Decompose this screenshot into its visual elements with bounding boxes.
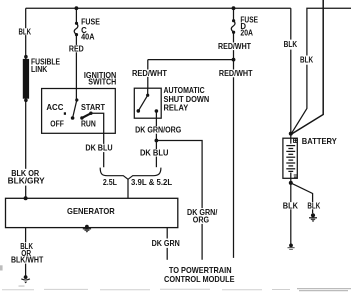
ignition switch box <box>42 89 116 134</box>
relay top stub tip <box>146 94 149 97</box>
wire brace to generator <box>127 179 129 198</box>
svg-text:BLK: BLK <box>300 56 313 65</box>
fuse D terminals <box>232 19 235 22</box>
svg-text:LINK: LINK <box>31 65 48 74</box>
svg-text:DK GRN/ORG: DK GRN/ORG <box>135 126 181 135</box>
node generator input <box>24 196 28 200</box>
ignition lever pivot <box>71 116 75 120</box>
brace 2.5L / 3.9L & 5.2L <box>100 168 161 180</box>
node fuse C tap <box>75 6 79 10</box>
fusible link body <box>23 59 29 99</box>
svg-text:BLK: BLK <box>18 27 31 36</box>
svg-text:AUTOMATIC: AUTOMATIC <box>164 86 205 95</box>
ground at generator lead bottom left <box>21 275 30 283</box>
wire relay output DK GRN/ORG <box>155 111 157 141</box>
node fuse D tap <box>232 6 236 10</box>
node DK GRN/ORG junction <box>155 139 159 143</box>
svg-text:RED/WHT: RED/WHT <box>132 69 167 78</box>
wire RUN output (DK BLU left) <box>91 113 104 167</box>
wire RUN contact stub <box>82 113 91 118</box>
wire junction DK BLU right <box>155 141 157 168</box>
svg-text:BLK: BLK <box>283 201 299 210</box>
svg-text:BLK: BLK <box>284 40 298 49</box>
fuse C terminals <box>75 22 78 25</box>
svg-text:BLK/WHT: BLK/WHT <box>11 255 44 264</box>
node RED/WHT junction <box>232 58 236 62</box>
wire relay feed horizontal <box>148 59 234 61</box>
wire battery negative to ground stud <box>290 178 292 245</box>
svg-text:BATTERY: BATTERY <box>302 136 337 146</box>
fuse C element curve <box>74 23 78 34</box>
relay box U1 <box>134 88 161 118</box>
svg-text:ORG: ORG <box>193 216 209 225</box>
wire ignition lever <box>73 100 77 118</box>
ignition RUN contact <box>80 116 83 119</box>
wire top bus <box>26 7 291 9</box>
fusible link terminals <box>24 55 28 59</box>
wire right line C from top edge <box>292 0 323 134</box>
wire relay top stub <box>147 88 149 95</box>
node battery positive <box>289 132 293 136</box>
ground at battery right branch <box>309 213 317 222</box>
generator box <box>6 198 178 227</box>
wire battery negative branch to right ground <box>291 183 313 213</box>
svg-text:CONTROL MODULE: CONTROL MODULE <box>164 274 235 284</box>
svg-text:RELAY: RELAY <box>164 104 189 113</box>
svg-text:SWITCH: SWITCH <box>88 77 116 86</box>
svg-text:ACC: ACC <box>46 103 63 112</box>
ground stud below battery <box>288 244 295 250</box>
scan noise bottom band <box>2 288 290 291</box>
battery body <box>283 138 297 178</box>
node battery negative <box>289 181 293 185</box>
svg-text:3.9L & 5.2L: 3.9L & 5.2L <box>131 178 172 187</box>
wire generator case ground lead <box>25 228 27 276</box>
svg-text:2.5L: 2.5L <box>103 178 117 187</box>
svg-text:BLK/GRY: BLK/GRY <box>8 177 46 186</box>
wire fuse C to ignition switch lever <box>75 35 77 100</box>
wire battery positive stub <box>290 134 292 139</box>
svg-text:DK BLU: DK BLU <box>85 144 113 153</box>
wire junction to powertrain drop <box>156 141 202 260</box>
wire fuse C branch upper <box>75 8 77 23</box>
svg-text:RED: RED <box>69 44 84 53</box>
fuse D element curve <box>231 21 235 33</box>
ground at generator case <box>83 225 91 233</box>
wire relay feed drop RED/WHT <box>147 60 149 89</box>
svg-text:20A: 20A <box>240 29 253 38</box>
white plates under wire labels <box>5 28 321 263</box>
relay pivot contact <box>137 109 141 113</box>
ignition ACC contact <box>64 112 66 115</box>
svg-text:RUN: RUN <box>81 119 96 128</box>
svg-text:OFF: OFF <box>50 119 64 128</box>
battery minus terminal marker <box>294 175 297 177</box>
scan noise left edge <box>0 265 3 270</box>
wire right bus B with corner <box>292 8 351 133</box>
wire generator DK GRN output <box>166 228 168 260</box>
svg-text:GENERATOR: GENERATOR <box>67 206 115 216</box>
svg-text:DK BLU: DK BLU <box>140 148 169 157</box>
svg-text:START: START <box>81 103 105 112</box>
wire fuse D long drop to powertrain <box>233 32 235 258</box>
svg-text:RED/WHT: RED/WHT <box>218 42 251 51</box>
wire fuse D branch upper <box>233 8 235 21</box>
wire right bus A drop to battery <box>290 8 292 133</box>
wire left BLK drop to fusible link and generator <box>25 8 27 198</box>
relay output contact <box>155 109 159 113</box>
svg-text:DK GRN: DK GRN <box>152 239 181 248</box>
battery plus terminal marker <box>294 139 298 143</box>
svg-text:40A: 40A <box>81 33 95 42</box>
svg-text:RED/WHT: RED/WHT <box>219 69 253 78</box>
scan noise bottom right <box>297 289 351 291</box>
wire relay lever <box>138 95 147 111</box>
svg-text:BLK: BLK <box>307 201 320 210</box>
